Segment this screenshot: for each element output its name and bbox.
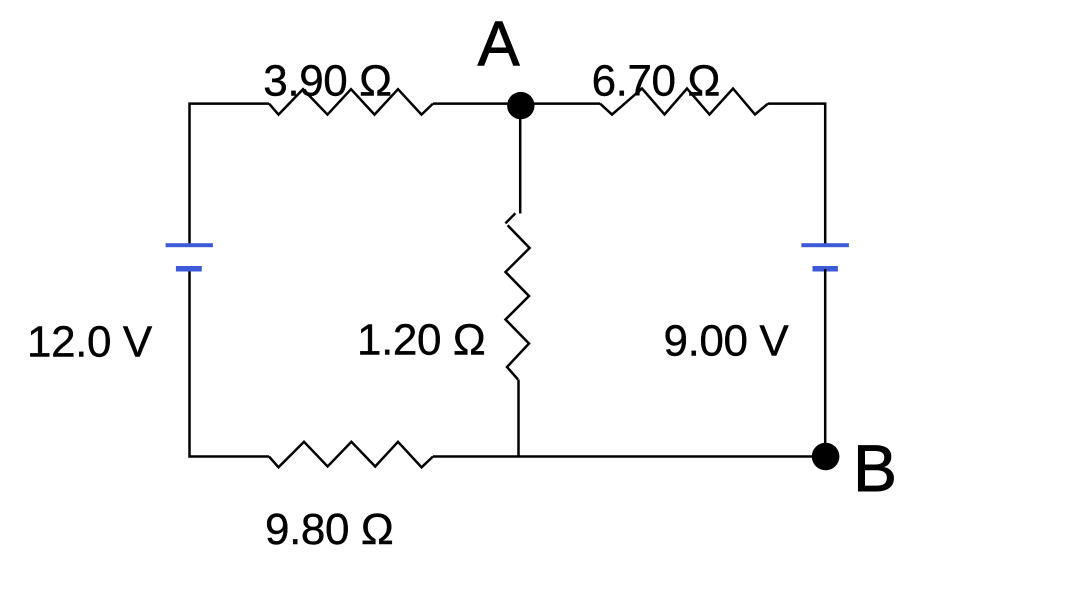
wire: [433, 455, 519, 458]
battery V1 12.0 V: [166, 243, 213, 271]
resistor R4 1.20 ohm: [505, 213, 529, 379]
wire: [824, 269, 827, 457]
resistor R1 3.90 ohm: [269, 89, 433, 114]
node A: [507, 92, 534, 119]
wire: [519, 106, 522, 214]
wire: [521, 102, 600, 105]
node B: [812, 443, 840, 471]
svg-text:B: B: [853, 431, 897, 505]
wire: [517, 380, 520, 457]
wire: [433, 102, 521, 105]
svg-text:A: A: [478, 9, 520, 79]
battery V2 9.00 V: [801, 243, 849, 271]
wire: [190, 270, 270, 457]
wire: [190, 104, 270, 244]
wire: [768, 104, 825, 244]
wire: [519, 455, 826, 458]
svg-text:9.80 Ω: 9.80 Ω: [265, 505, 393, 554]
svg-text:3.90 Ω: 3.90 Ω: [263, 57, 391, 106]
resistor R3 9.80 ohm: [269, 442, 433, 468]
svg-text:9.00 V: 9.00 V: [664, 317, 790, 366]
svg-text:12.0 V: 12.0 V: [27, 318, 153, 367]
resistor R2 6.70 ohm: [600, 89, 768, 115]
svg-text:6.70 Ω: 6.70 Ω: [592, 57, 720, 106]
svg-text:1.20 Ω: 1.20 Ω: [357, 316, 485, 365]
